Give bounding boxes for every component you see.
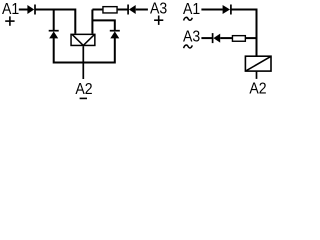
plus polarity mark under A1 bbox=[5, 16, 14, 25]
wire D6 to resistor R2 bbox=[220, 37, 232, 39]
wire right A3 lead bbox=[201, 37, 213, 39]
minus polarity mark under A2 bbox=[80, 97, 87, 99]
wire D1 to corner above LED box bbox=[35, 10, 75, 34]
wire A1 lead bbox=[19, 9, 28, 11]
wire D5 to coil, with corner down bbox=[231, 10, 257, 56]
svg-text:A3: A3 bbox=[183, 29, 200, 46]
wire right A1 lead bbox=[201, 9, 222, 11]
bottom rail connecting D2 and D4 bbox=[54, 38, 115, 63]
diode D3 (pointing left toward resistor) bbox=[128, 5, 136, 15]
wire A2 lead (right circuit) bbox=[256, 72, 258, 79]
coil diagonal bbox=[246, 57, 270, 71]
wire branch down to diode D2 bbox=[53, 10, 55, 31]
AC tilde mark under right A3 bbox=[184, 45, 193, 48]
diode D4 (pointing up) bbox=[110, 31, 120, 39]
plus polarity mark under A3 bbox=[154, 16, 163, 25]
wire resistor to diode D3 bbox=[118, 9, 129, 11]
svg-text:A2: A2 bbox=[75, 81, 92, 98]
svg-text:A1: A1 bbox=[183, 1, 200, 18]
LED triangle inside box bbox=[72, 35, 94, 46]
diode D1 (series diode from A1, pointing right) bbox=[27, 5, 35, 15]
resistor R2 bbox=[232, 36, 245, 42]
wire A2 lead (left circuit) bbox=[82, 46, 84, 79]
LED indicator box U1 bbox=[71, 34, 95, 45]
wire branch to diode D4 bbox=[92, 20, 114, 30]
AC tilde mark under right A1 bbox=[184, 17, 193, 20]
relay coil K1 bbox=[245, 56, 271, 71]
wire R2 to coil branch junction bbox=[246, 37, 257, 39]
wire D3 to A3 bbox=[136, 9, 148, 11]
svg-text:A2: A2 bbox=[249, 80, 266, 97]
diode D5 (pointing right, right circuit) bbox=[223, 5, 231, 15]
diode D6 (pointing left, right circuit) bbox=[213, 33, 221, 43]
svg-text:A1: A1 bbox=[2, 1, 19, 18]
wire resistor lead left bbox=[92, 9, 102, 11]
resistor R1 bbox=[103, 7, 117, 13]
diode D2 (pointing up) bbox=[49, 31, 59, 39]
wire from resistor branch down to LED box right terminal bbox=[91, 10, 93, 34]
svg-text:A3: A3 bbox=[150, 1, 167, 18]
